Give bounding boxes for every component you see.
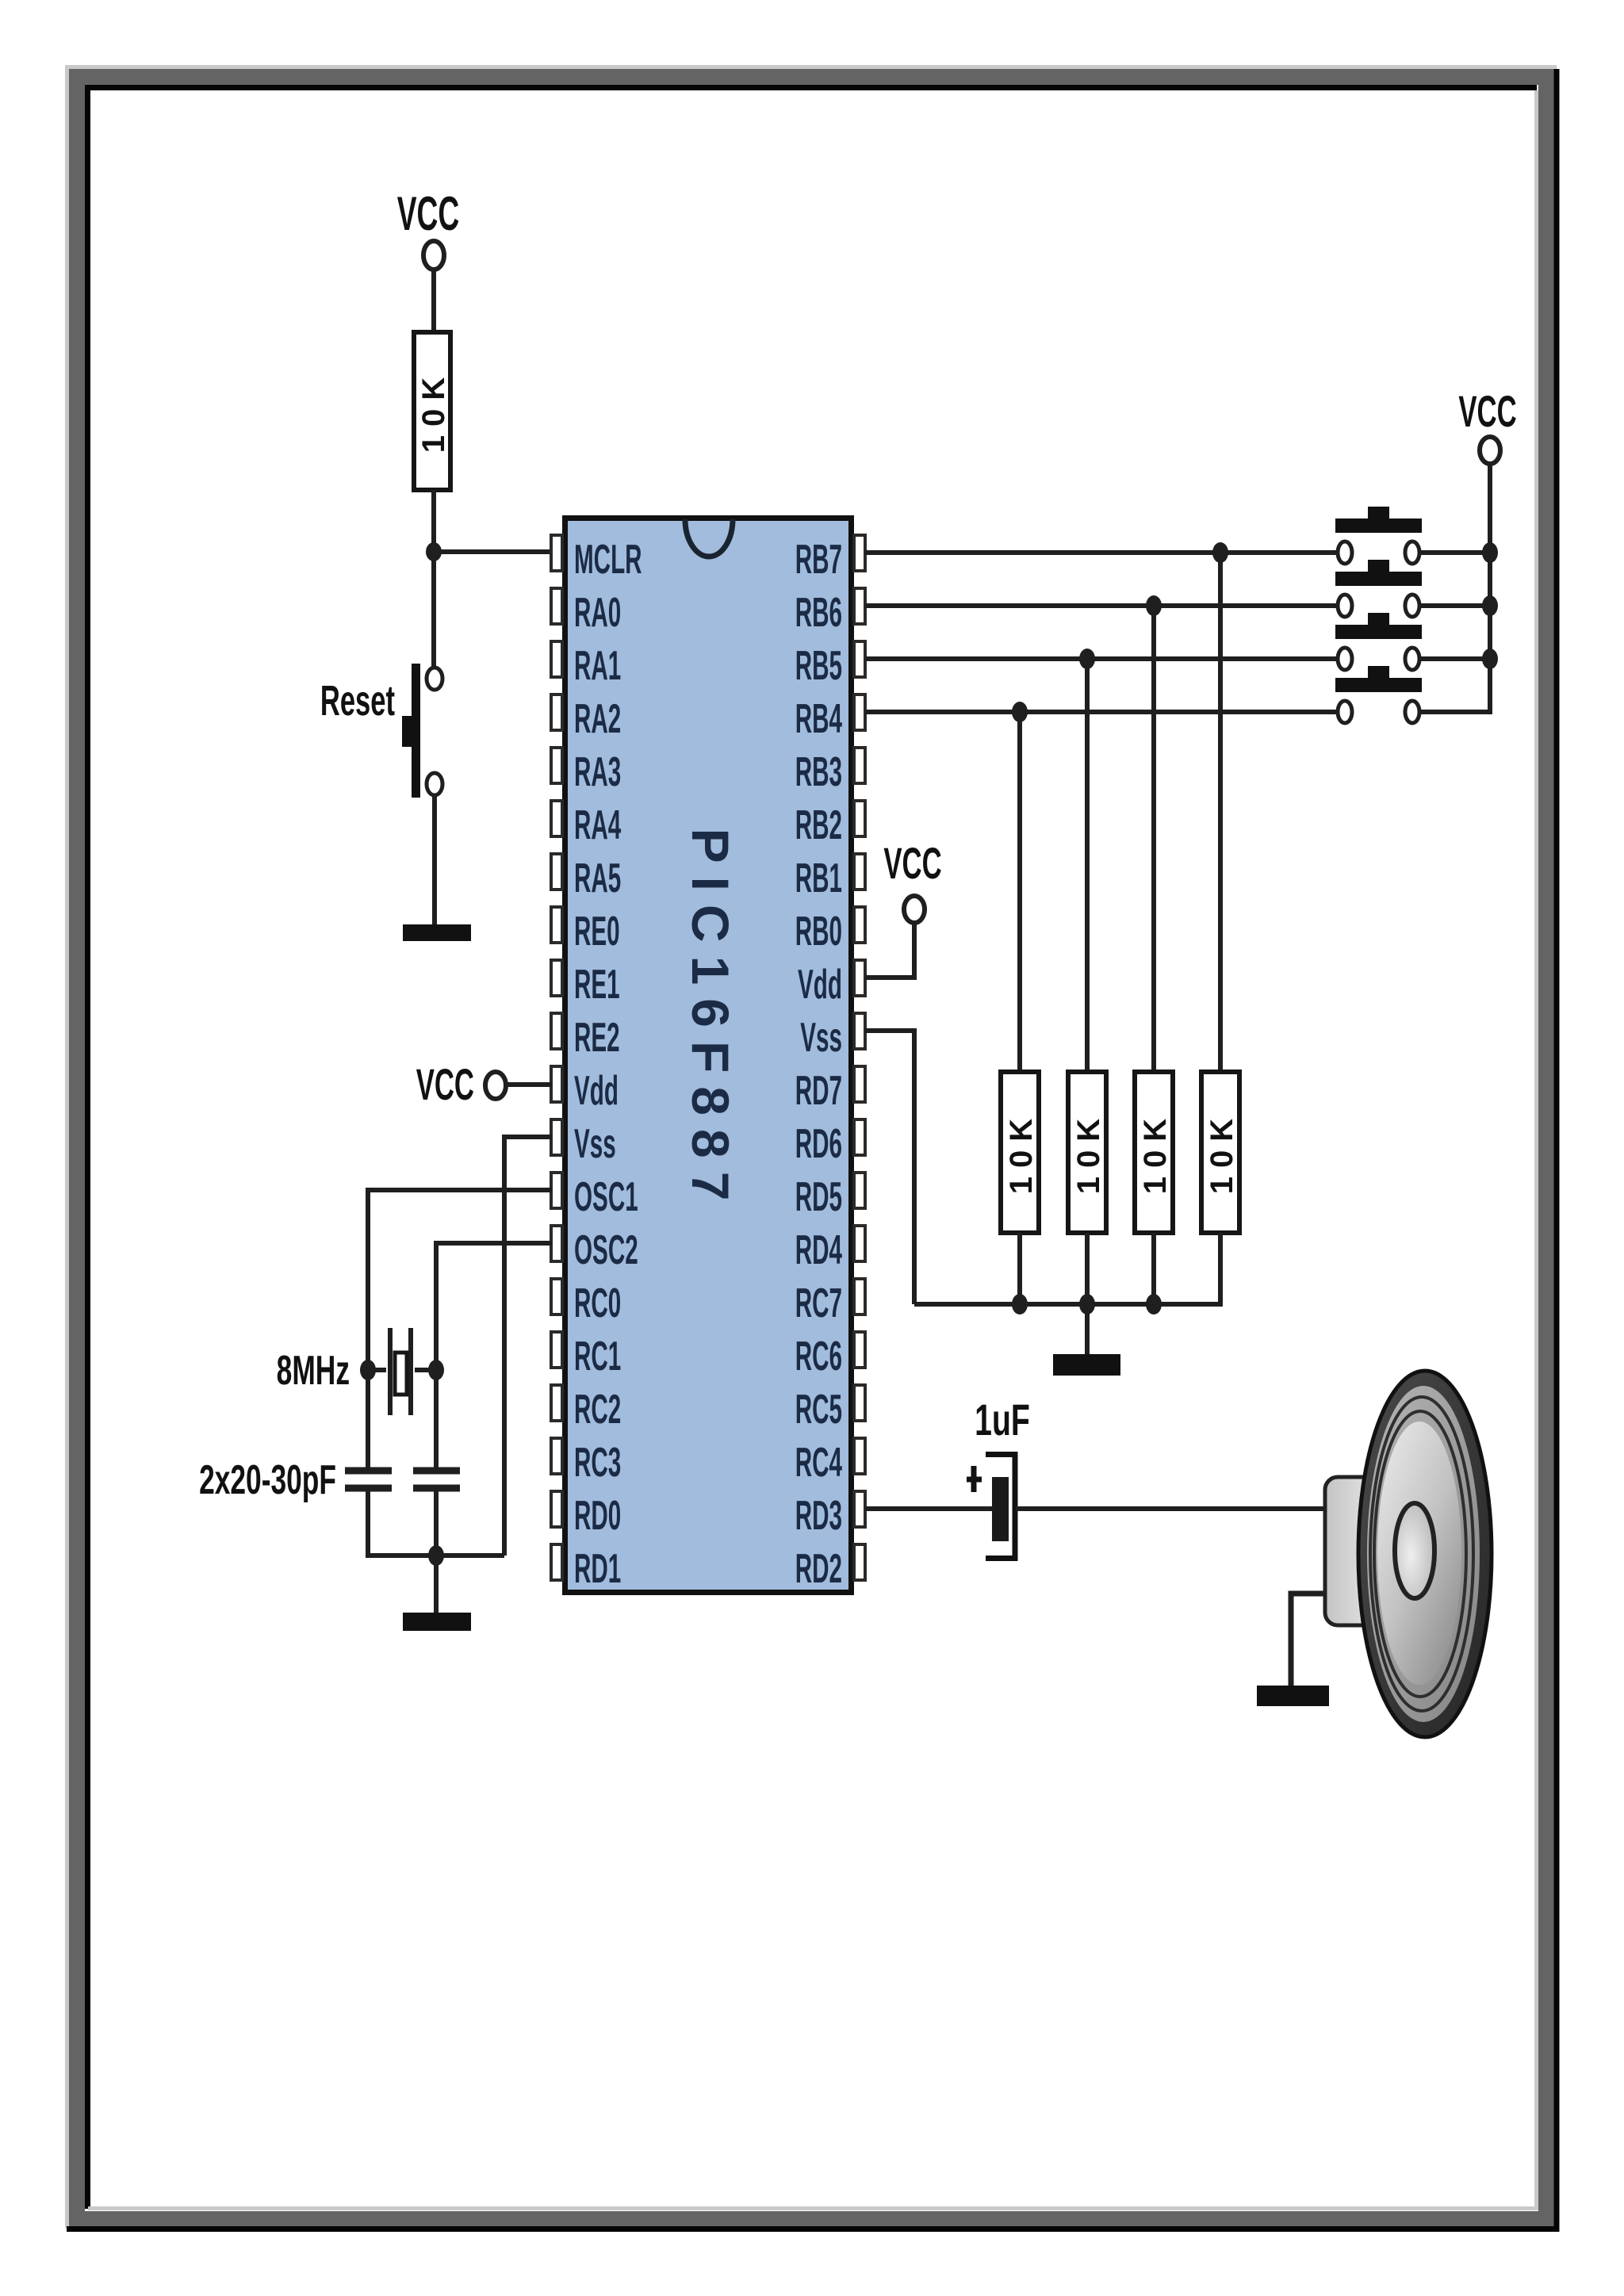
ground (speaker) (1257, 1686, 1329, 1706)
pin 13 OSC1 (left) (551, 1173, 638, 1219)
svg-text:VCC: VCC (883, 839, 941, 889)
svg-text:2x20-30pF: 2x20-30pF (199, 1457, 336, 1502)
op-amp U1 PIC16F887 microcontroller body (565, 519, 852, 1593)
pin 21 RD2 (right) (795, 1544, 865, 1591)
pin 26 RC7 (right) (795, 1279, 865, 1326)
pushbutton S1 (RB7) (1335, 507, 1422, 564)
wire button S3 to VCC rail (1419, 656, 1490, 661)
node ground rail junction (1079, 1294, 1095, 1314)
svg-text:OSC1: OSC1 (574, 1173, 638, 1219)
pushbutton Reset (320, 664, 442, 798)
pin 15 RC0 (left) (551, 1279, 621, 1326)
wire speaker return to ground (1291, 1594, 1329, 1686)
pin 8 RE0 (left) (551, 907, 620, 954)
wire RB5 drop to resistor (1085, 659, 1090, 1072)
node RB7 junction to pull-down (1212, 542, 1228, 563)
svg-text:RB7: RB7 (795, 536, 842, 582)
pin 25 RC6 (right) (795, 1332, 865, 1379)
pin 2 RA0 (left) (551, 588, 621, 635)
node ground rail junction (1012, 1294, 1028, 1314)
svg-text:10K: 10K (1004, 1110, 1039, 1194)
node VCC (top-left supply) (397, 187, 460, 270)
wire RB5 row (865, 656, 1338, 661)
node crystal left junction (360, 1360, 376, 1380)
svg-text:MCLR: MCLR (574, 536, 642, 582)
pin 39 RB6 (right) (795, 588, 865, 635)
svg-text:RB3: RB3 (795, 748, 842, 794)
pin 28 RD5 (right) (795, 1173, 865, 1219)
svg-text:RD7: RD7 (795, 1067, 842, 1113)
wire VCC to Vdd pin (right) (865, 923, 914, 978)
wire OSC1 branch (368, 1190, 552, 1468)
wire R5 bottom (1218, 1233, 1223, 1307)
svg-text:OSC2: OSC2 (574, 1226, 638, 1272)
node ground rail junction (1146, 1294, 1162, 1314)
svg-text:8MHz: 8MHz (277, 1348, 350, 1393)
svg-text:RA2: RA2 (574, 695, 621, 741)
pin 19 RD0 (left) (551, 1491, 621, 1538)
wire junction to MCLR pin (434, 549, 552, 554)
wire R1 bottom to reset switch (431, 490, 436, 670)
wire Vss (right) to ground rail (865, 1031, 914, 1304)
IC notch (pin-1 index arc) (685, 519, 733, 557)
svg-text:RB0: RB0 (795, 908, 842, 954)
svg-text:RB2: RB2 (795, 802, 842, 848)
svg-text:RE2: RE2 (574, 1014, 620, 1060)
capacitor C2 (20-30pF, OSC2 side) (413, 1471, 460, 1488)
pin 24 RC5 (right) (795, 1385, 865, 1432)
ground (pull-down resistors) (1053, 1354, 1120, 1376)
svg-text:Vdd: Vdd (574, 1067, 619, 1113)
svg-text:RD1: RD1 (574, 1545, 621, 1591)
wire R2 bottom (1017, 1233, 1022, 1307)
svg-text:RC4: RC4 (795, 1439, 843, 1485)
svg-text:RD5: RD5 (795, 1173, 842, 1219)
pushbutton S3 (RB5) (1335, 613, 1422, 670)
pin 5 RA3 (left) (551, 748, 621, 794)
pin 22 RD3 (right) (795, 1491, 865, 1538)
svg-text:RB6: RB6 (795, 589, 842, 635)
pin 9 RE1 (left) (551, 960, 620, 1007)
wire C2 bottom (434, 1491, 439, 1558)
node VCC rail junction 1 (1482, 542, 1498, 563)
node RB4 junction to pull-down (1012, 702, 1028, 722)
pin 14 OSC2 (left) (551, 1226, 638, 1272)
wire RB6 row (865, 603, 1338, 608)
svg-text:Vss: Vss (800, 1014, 842, 1060)
svg-text:RC0: RC0 (574, 1280, 621, 1326)
svg-text:10K: 10K (1071, 1110, 1106, 1194)
wire button S2 to VCC rail (1419, 603, 1490, 608)
pin 23 RC4 (right) (795, 1438, 865, 1485)
node RB5 junction to pull-down (1079, 649, 1095, 669)
svg-text:RA5: RA5 (574, 855, 621, 901)
svg-text:RD0: RD0 (574, 1492, 621, 1538)
pin 37 RB4 (right) (795, 695, 865, 741)
svg-text:VCC: VCC (416, 1060, 474, 1110)
wire button S1 to VCC rail (1419, 550, 1490, 555)
svg-text:RD4: RD4 (795, 1226, 843, 1272)
svg-text:10K: 10K (416, 369, 451, 453)
wire button S4 to VCC rail (1419, 710, 1490, 714)
pushbutton S4 (RB4) (1335, 666, 1422, 723)
pin 38 RB5 (right) (795, 641, 865, 688)
pin 40 RB7 (right) (795, 535, 865, 582)
pin 11 Vdd (left) (551, 1066, 619, 1113)
pin 18 RC3 (left) (551, 1438, 621, 1485)
capacitor C3 1uF (polarized) (967, 1395, 1030, 1558)
pin 29 RD6 (right) (795, 1119, 865, 1166)
pin 35 RB2 (right) (795, 801, 865, 848)
svg-text:10K: 10K (1138, 1110, 1173, 1194)
pin 27 RD4 (right) (795, 1226, 865, 1272)
resistor R1 10K (MCLR pull-up) (414, 332, 451, 490)
svg-text:PIC16F887: PIC16F887 (681, 828, 740, 1215)
wire R4 bottom (1151, 1233, 1156, 1307)
wire RB4 drop to resistor (1017, 712, 1022, 1072)
wire Vss (left) down to oscillator ground rail (504, 1137, 552, 1556)
node oscillator ground junction (428, 1545, 444, 1566)
svg-text:RD6: RD6 (795, 1120, 842, 1166)
pin 10 RE2 (left) (551, 1013, 620, 1060)
node VCC (buttons supply, top-right) (1458, 387, 1516, 464)
svg-text:Vss: Vss (574, 1120, 616, 1166)
svg-text:RA4: RA4 (574, 802, 622, 848)
svg-text:10K: 10K (1205, 1110, 1239, 1194)
crystal X1 8MHz (277, 1328, 436, 1415)
pin 20 RD1 (left) (551, 1544, 621, 1591)
wire RB7 drop to resistor (1218, 553, 1223, 1072)
speaker LS1 (1325, 1371, 1492, 1737)
svg-text:RC2: RC2 (574, 1386, 621, 1432)
node VCC rail junction 3 (1482, 649, 1498, 669)
svg-text:RC5: RC5 (795, 1386, 842, 1432)
wire VCC rail (right) (1488, 464, 1492, 714)
pin 30 RD7 (right) (795, 1066, 865, 1113)
wire C3 to speaker (1016, 1506, 1329, 1511)
svg-text:RD2: RD2 (795, 1545, 842, 1591)
svg-text:RA1: RA1 (574, 642, 621, 688)
pushbutton S2 (RB6) (1335, 560, 1422, 617)
node junction MCLR/R1/reset (426, 542, 442, 561)
wire RB4 row (865, 710, 1338, 714)
ground (below reset) (403, 924, 471, 941)
wire C1 bottom (366, 1491, 370, 1558)
wire pull-down ground rail (914, 1302, 1220, 1307)
wire rail to ground symbol (1085, 1304, 1090, 1356)
svg-text:RB1: RB1 (795, 855, 842, 901)
svg-text:RE0: RE0 (574, 908, 620, 954)
wire VCC to R1 top (431, 270, 436, 334)
resistor R2 10K (pull-down) (1001, 1072, 1039, 1233)
svg-text:VCC: VCC (397, 187, 460, 240)
svg-text:RA3: RA3 (574, 748, 621, 794)
node VCC (left Vdd supply) (416, 1060, 506, 1110)
wire RD3 to C3 (865, 1506, 992, 1511)
wire RB6 drop to resistor (1151, 606, 1156, 1072)
wire VCC to Vdd pin (left) (506, 1082, 552, 1087)
node VCC rail junction 2 (1482, 595, 1498, 616)
pin 7 RA5 (left) (551, 854, 621, 901)
node RB6 junction to pull-down (1146, 595, 1162, 616)
svg-text:RA0: RA0 (574, 589, 621, 635)
resistor R3 10K (pull-down) (1068, 1072, 1106, 1233)
wire oscillator ground rail (368, 1553, 504, 1558)
svg-text:VCC: VCC (1458, 387, 1516, 437)
resistor R5 10K (pull-down) (1201, 1072, 1239, 1233)
svg-text:RE1: RE1 (574, 961, 620, 1007)
svg-text:1uF: 1uF (975, 1395, 1030, 1445)
pin 31 Vss (right) (800, 1013, 865, 1060)
wire R3 bottom (1085, 1233, 1090, 1307)
pin 17 RC2 (left) (551, 1385, 621, 1432)
wire reset to ground (432, 795, 437, 924)
wire to ground symbol (434, 1556, 439, 1613)
svg-text:RC6: RC6 (795, 1333, 842, 1379)
ground (oscillator) (403, 1613, 471, 1631)
svg-text:RC3: RC3 (574, 1439, 621, 1485)
node VCC (right Vdd supply) (883, 839, 941, 923)
capacitor C1 (20-30pF, OSC1 side) (345, 1471, 392, 1488)
pin 33 RB0 (right) (795, 907, 865, 954)
svg-text:RD3: RD3 (795, 1492, 842, 1538)
svg-text:Reset: Reset (320, 676, 395, 725)
pin 6 RA4 (left) (551, 801, 622, 848)
pin 1 MCLR (left) (551, 535, 642, 582)
svg-text:Vdd: Vdd (798, 961, 842, 1007)
resistor R4 10K (pull-down) (1135, 1072, 1173, 1233)
wire OSC2 branch (436, 1243, 552, 1468)
pin 3 RA1 (left) (551, 641, 621, 688)
pin 16 RC1 (left) (551, 1332, 621, 1379)
svg-text:RC1: RC1 (574, 1333, 621, 1379)
pin 34 RB1 (right) (795, 854, 865, 901)
pin 4 RA2 (left) (551, 695, 621, 741)
node crystal right junction (428, 1360, 444, 1380)
svg-text:RB4: RB4 (795, 695, 843, 741)
pin 36 RB3 (right) (795, 748, 865, 794)
svg-text:RC7: RC7 (795, 1280, 842, 1326)
wire RB7 row (865, 550, 1338, 555)
pin 12 Vss (left) (551, 1119, 616, 1166)
pin 32 Vdd (right) (798, 960, 865, 1007)
svg-text:RB5: RB5 (795, 642, 842, 688)
